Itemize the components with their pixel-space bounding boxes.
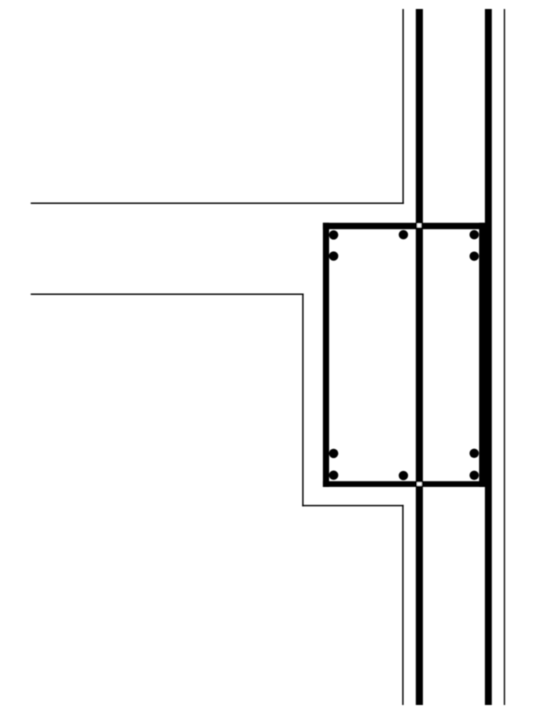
wall face thick line left at x=419 <box>416 9 423 705</box>
rebar dot top-right 2 <box>470 252 479 261</box>
rebar dot top-left 2 <box>329 251 338 260</box>
wire: thin wall line horizontal at y=294 <box>31 294 304 295</box>
rebar dot bottom-right 2 <box>470 471 479 480</box>
rebar dot bottom-left 2 <box>329 471 338 480</box>
stirrup right edge <box>479 223 485 487</box>
gap square top crossing <box>417 223 421 227</box>
rebar dot top-right 1 <box>470 230 479 239</box>
gap square bottom crossing <box>417 482 422 486</box>
wire: thin wall line vertical upper at x=403 <box>402 9 403 204</box>
wire: thin wall line vertical at x=504 <box>504 9 505 705</box>
wire: thin wall line horizontal at y=505.6 <box>302 505 403 506</box>
rebar dot top-middle <box>399 230 408 239</box>
wire: thin wall line vertical lower at x=403 <box>402 505 403 705</box>
stirrup top edge <box>323 223 485 229</box>
rebar dot bottom-right 1 <box>470 449 479 458</box>
rebar dot top-left 1 <box>329 230 338 239</box>
stirrup left edge <box>323 223 329 487</box>
rebar dot bottom-middle <box>399 471 408 480</box>
stirrup bottom edge <box>323 481 485 487</box>
rebar dot bottom-left 1 <box>329 449 338 458</box>
wire: thin wall line horizontal at y=203 <box>31 203 404 204</box>
wire: thin wall line vertical at x=303 <box>302 294 303 507</box>
wall face thick line right at x=488 <box>485 9 492 705</box>
